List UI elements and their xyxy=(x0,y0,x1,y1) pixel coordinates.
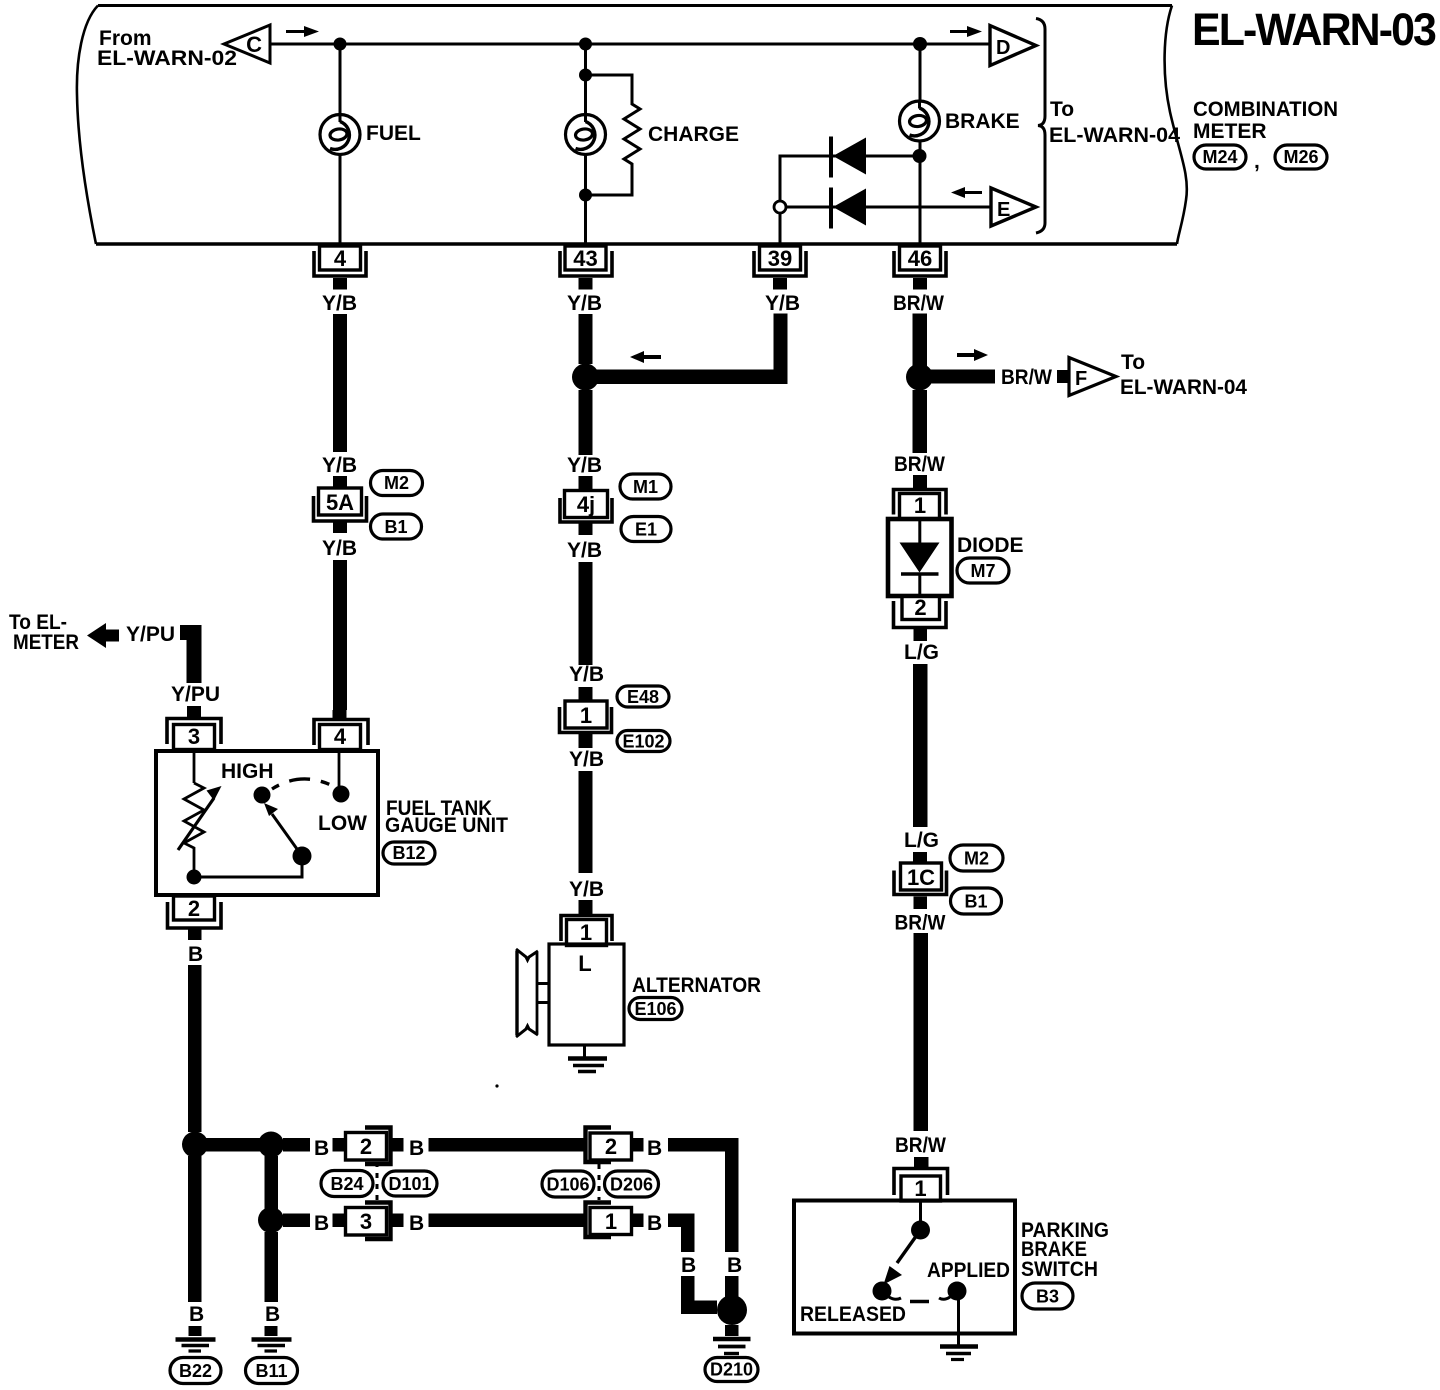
wire switch common lead xyxy=(919,1201,922,1224)
svg-text:Y/B: Y/B xyxy=(567,454,602,477)
ground B11 xyxy=(252,1340,292,1352)
svg-text:B: B xyxy=(727,1254,742,1277)
wire junction to F xyxy=(930,370,995,384)
svg-text:EL-WARN-04: EL-WARN-04 xyxy=(1120,376,1247,399)
wire charge thick below junction xyxy=(579,390,593,455)
wire stub row1 after right 2 xyxy=(632,1138,644,1152)
wire between junctions xyxy=(206,1138,260,1152)
svg-text:M1: M1 xyxy=(633,477,658,497)
svg-text:L: L xyxy=(578,951,591,976)
connector oval M2 xyxy=(371,471,423,496)
svg-text:CHARGE: CHARGE xyxy=(648,123,739,146)
svg-text:M7: M7 xyxy=(970,561,995,581)
wire stub row1 after 2 xyxy=(391,1138,404,1152)
terminal 2 gauge xyxy=(168,896,222,940)
svg-text:4: 4 xyxy=(334,246,347,271)
scan speck xyxy=(495,1084,498,1087)
svg-text:B1: B1 xyxy=(964,892,987,912)
svg-text:1C: 1C xyxy=(907,865,935,890)
svg-text:F: F xyxy=(1075,368,1087,390)
svg-text:E: E xyxy=(997,199,1010,221)
wire Y/PU elbow xyxy=(180,625,202,683)
contact HIGH xyxy=(254,787,271,804)
svg-text:43: 43 xyxy=(573,246,597,271)
wire node to terminal 39 xyxy=(779,212,782,244)
svg-text:To: To xyxy=(1050,98,1074,121)
combination meter box outline xyxy=(77,6,1187,245)
svg-text:B: B xyxy=(188,943,203,966)
dashed mating line row1 xyxy=(376,1162,379,1203)
box alternator xyxy=(549,944,624,1045)
connector arrow C xyxy=(224,25,270,63)
svg-text:M24: M24 xyxy=(1202,147,1237,167)
contact RELEASED xyxy=(873,1282,902,1301)
svg-text:Y/PU: Y/PU xyxy=(126,623,175,646)
svg-text:3: 3 xyxy=(360,1209,372,1234)
connector oval D106 xyxy=(542,1171,594,1197)
connector pair row1 right 2 xyxy=(586,1128,632,1163)
terminal 3 gauge xyxy=(167,706,221,750)
terminal 4 xyxy=(314,246,366,290)
wire main bus xyxy=(270,43,990,46)
svg-text:APPLIED: APPLIED xyxy=(927,1259,1010,1282)
svg-text:B22: B22 xyxy=(179,1361,212,1381)
diode upper xyxy=(831,137,866,178)
connector oval M26 xyxy=(1275,145,1327,169)
svg-text:B3: B3 xyxy=(1036,1287,1059,1307)
connector oval M7 xyxy=(957,558,1009,583)
svg-text:BR/W: BR/W xyxy=(894,453,945,476)
terminal 39 xyxy=(754,246,806,290)
svg-text:46: 46 xyxy=(908,246,932,271)
svg-text:M2: M2 xyxy=(384,473,409,493)
contact APPLIED xyxy=(939,1282,967,1301)
text FUEL TANK GAUGE UNIT xyxy=(385,797,508,837)
svg-text:COMBINATION: COMBINATION xyxy=(1193,98,1338,121)
svg-text:5A: 5A xyxy=(326,490,354,515)
connector oval E1 xyxy=(621,517,671,542)
connector pair row2 right 1 xyxy=(586,1203,632,1238)
node ground D210 xyxy=(717,1295,747,1325)
svg-text:E102: E102 xyxy=(622,732,664,752)
box fuel tank gauge unit xyxy=(156,751,378,895)
svg-text:LOW: LOW xyxy=(318,812,367,835)
wire row1 to corner xyxy=(668,1145,732,1252)
svg-text:METER: METER xyxy=(13,631,79,654)
svg-text:1: 1 xyxy=(914,493,926,518)
connector oval B12 xyxy=(383,842,435,864)
node charge junction xyxy=(572,364,599,391)
terminal 1 parking switch xyxy=(894,1157,948,1201)
connector oval B1 right xyxy=(951,888,1002,914)
svg-text:2: 2 xyxy=(188,896,200,921)
svg-text:D210: D210 xyxy=(710,1360,753,1380)
svg-text:METER: METER xyxy=(1193,120,1267,143)
wire 39 to charge horizontal xyxy=(592,370,788,385)
svg-text:EL-WARN-04: EL-WARN-04 xyxy=(1049,124,1180,147)
connector oval B1 xyxy=(371,514,422,539)
wire junction to B row1 xyxy=(283,1138,310,1152)
node brake diode junction xyxy=(913,149,927,163)
wire charge thick upper xyxy=(579,314,593,364)
svg-text:E106: E106 xyxy=(634,999,676,1019)
text To EL-WARN-04 top xyxy=(1049,98,1180,147)
svg-text:D106: D106 xyxy=(546,1175,589,1195)
svg-text:B: B xyxy=(314,1137,329,1160)
svg-text:E1: E1 xyxy=(635,520,657,540)
wire row2 corner to node xyxy=(688,1276,717,1307)
svg-text:Y/B: Y/B xyxy=(322,454,357,477)
connector oval B22 xyxy=(170,1358,221,1384)
ground B22 xyxy=(176,1340,216,1352)
text From EL-WARN-02 xyxy=(97,27,237,70)
node junction charge xyxy=(579,38,592,51)
splice E48 terminal 1 xyxy=(560,687,612,748)
wire stub B22 xyxy=(189,1326,202,1336)
resistor CHARGE shunt xyxy=(586,75,641,195)
svg-text:BR/W: BR/W xyxy=(1001,366,1052,389)
lamp BRAKE xyxy=(900,101,940,142)
svg-text:M2: M2 xyxy=(964,849,989,869)
wire upper diode branch xyxy=(780,156,920,202)
wire row2 to corner xyxy=(668,1220,688,1252)
flow arrow right of C xyxy=(286,26,319,37)
wire junction to B row2 xyxy=(283,1214,310,1228)
svg-text:39: 39 xyxy=(768,246,792,271)
svg-text:3: 3 xyxy=(188,724,200,749)
svg-text:D: D xyxy=(996,37,1010,59)
wire stub row1 left xyxy=(333,1138,346,1152)
svg-text:RELEASED: RELEASED xyxy=(800,1303,906,1326)
wire charge thick to alternator xyxy=(579,771,593,873)
ground parking switch xyxy=(940,1347,978,1360)
svg-text:B12: B12 xyxy=(392,843,425,863)
svg-text:E48: E48 xyxy=(627,687,659,707)
connector oval M2 right xyxy=(950,845,1003,871)
svg-text:B: B xyxy=(265,1303,280,1326)
svg-text:BR/W: BR/W xyxy=(895,912,946,935)
svg-text:B: B xyxy=(189,1303,204,1326)
connector oval B3 xyxy=(1022,1283,1073,1309)
svg-text:B: B xyxy=(681,1254,696,1277)
connector arrow E xyxy=(991,188,1036,226)
node resistor top xyxy=(579,69,592,82)
wire charge thick mid xyxy=(579,562,593,665)
connector oval D210 xyxy=(705,1358,758,1382)
connector oval E102 xyxy=(617,731,670,752)
node resistor bottom xyxy=(579,189,592,202)
flow arrow left above charge wire xyxy=(630,351,661,363)
svg-text:Y/B: Y/B xyxy=(765,292,800,315)
node gauge bottom junction xyxy=(187,870,202,885)
svg-text:BRAKE: BRAKE xyxy=(945,110,1020,133)
wire stub row2 after right 1 xyxy=(632,1214,644,1228)
connector pair row2 left 3 xyxy=(346,1203,391,1240)
node ground junction row2 xyxy=(258,1207,284,1233)
connector oval M24 xyxy=(1194,145,1246,169)
connector arrow D xyxy=(990,26,1036,66)
svg-text:2: 2 xyxy=(914,595,926,620)
svg-text:B: B xyxy=(314,1212,329,1235)
wire row1 long xyxy=(429,1138,587,1152)
svg-text:D101: D101 xyxy=(388,1174,431,1194)
wire junction mid down xyxy=(265,1156,279,1209)
svg-text:GAUGE UNIT: GAUGE UNIT xyxy=(385,814,508,837)
svg-text:,: , xyxy=(1254,150,1260,173)
wire B22 thick vertical xyxy=(188,1156,202,1302)
svg-text:HIGH: HIGH xyxy=(221,760,274,783)
connector oval E48 xyxy=(617,686,669,707)
text To EL-WARN-04 right xyxy=(1120,351,1247,399)
wire brake thick to switch xyxy=(914,933,929,1131)
wire B11 thick vertical xyxy=(265,1232,279,1302)
svg-text:C: C xyxy=(246,32,262,57)
terminal 2 diode xyxy=(894,595,947,641)
node ground junction mid xyxy=(258,1132,284,1158)
splice 5A xyxy=(314,476,367,533)
wire 46 thick vertical xyxy=(913,314,928,368)
wire fuel thick upper xyxy=(333,314,347,452)
svg-text:To: To xyxy=(1121,351,1145,374)
svg-text:1: 1 xyxy=(914,1176,926,1201)
svg-text:Y/PU: Y/PU xyxy=(171,683,220,706)
wire fuel thick lower xyxy=(333,560,347,710)
wire stub row2 after 3 xyxy=(391,1214,404,1228)
dashed travel arc gauge xyxy=(272,779,335,789)
svg-text:Y/B: Y/B xyxy=(322,537,357,560)
svg-text:B24: B24 xyxy=(330,1174,363,1194)
svg-text:2: 2 xyxy=(605,1134,617,1159)
svg-text:4j: 4j xyxy=(577,492,595,517)
svg-text:DIODE: DIODE xyxy=(957,534,1024,557)
svg-text:2: 2 xyxy=(360,1134,372,1159)
svg-text:ALTERNATOR: ALTERNATOR xyxy=(632,974,761,997)
wire 39 thick vertical xyxy=(774,314,788,371)
wire brake thick below junction xyxy=(913,390,928,453)
connector oval E106 xyxy=(629,998,682,1020)
svg-text:Y/B: Y/B xyxy=(322,292,357,315)
ground alternator xyxy=(568,1045,607,1072)
wire low contact lead xyxy=(338,750,341,788)
dashed mating line row1 right xyxy=(598,1164,601,1200)
node open circle xyxy=(774,201,786,213)
svg-text:1: 1 xyxy=(580,920,592,945)
connector pair row1 left 2 xyxy=(346,1128,391,1165)
wire gauge wiper return xyxy=(194,860,302,877)
wire stub row2 left xyxy=(333,1214,346,1228)
wire charge lamp vertical xyxy=(584,44,587,244)
wire stub before F xyxy=(1057,370,1069,383)
wire stub to D210 node xyxy=(725,1276,739,1297)
flow arrow before D xyxy=(950,26,982,37)
lamp FUEL xyxy=(320,114,360,155)
node ground junction left xyxy=(182,1132,208,1158)
svg-text:M26: M26 xyxy=(1283,147,1318,167)
svg-text:L/G: L/G xyxy=(904,829,939,852)
connector oval B24 xyxy=(321,1171,373,1197)
svg-text:1: 1 xyxy=(605,1209,617,1234)
svg-text:B: B xyxy=(647,1137,662,1160)
brace to EL-WARN-04 xyxy=(1036,19,1045,234)
node junction fuel xyxy=(334,38,347,51)
svg-text:L/G: L/G xyxy=(904,641,939,664)
svg-text:BR/W: BR/W xyxy=(895,1134,946,1157)
wire brake lamp vertical xyxy=(919,44,922,244)
dash between contacts xyxy=(910,1300,929,1304)
svg-text:B: B xyxy=(647,1212,662,1235)
node wiper pivot xyxy=(293,847,312,866)
svg-text:EL-WARN-03: EL-WARN-03 xyxy=(1192,4,1436,55)
switch wiper arm gauge xyxy=(264,803,302,856)
connector oval M1 xyxy=(620,474,671,499)
svg-text:Y/B: Y/B xyxy=(569,663,604,686)
wire fuel lamp vertical xyxy=(339,44,342,244)
svg-text:B: B xyxy=(409,1212,424,1235)
svg-text:EL-WARN-02: EL-WARN-02 xyxy=(97,47,237,70)
wire lower diode branch xyxy=(786,206,991,209)
lamp CHARGE xyxy=(566,114,606,155)
terminal 46 xyxy=(894,246,946,290)
svg-text:Y/B: Y/B xyxy=(569,748,604,771)
svg-text:Y/B: Y/B xyxy=(569,878,604,901)
svg-text:FUEL: FUEL xyxy=(366,122,421,145)
svg-text:Y/B: Y/B xyxy=(567,292,602,315)
diode M7 component xyxy=(888,519,952,596)
wire applied to ground xyxy=(957,1300,960,1345)
node switch common xyxy=(911,1221,930,1240)
svg-text:B11: B11 xyxy=(255,1361,287,1381)
ground D210 xyxy=(713,1325,751,1354)
terminal 43 xyxy=(560,246,612,290)
wire gauge resistor lead xyxy=(193,750,196,783)
contact LOW xyxy=(333,786,350,803)
wire row2 long xyxy=(429,1214,587,1228)
svg-text:4: 4 xyxy=(334,724,347,749)
terminal 4 gauge xyxy=(314,710,368,750)
svg-text:SWITCH: SWITCH xyxy=(1021,1258,1098,1281)
svg-text:D206: D206 xyxy=(610,1175,653,1195)
connector oval B11 xyxy=(246,1358,298,1384)
flow arrow left above E wire xyxy=(951,187,982,198)
text To EL-METER xyxy=(9,611,79,654)
flow arrow to EL-METER xyxy=(87,623,119,648)
terminal 1 alternator xyxy=(561,900,612,946)
svg-text:B1: B1 xyxy=(384,517,407,537)
svg-text:Y/B: Y/B xyxy=(567,539,602,562)
terminal 1 diode xyxy=(894,475,947,519)
flow arrow right above BR W wire xyxy=(957,349,988,361)
variable resistor gauge xyxy=(178,783,222,877)
svg-text:B: B xyxy=(409,1137,424,1160)
splice 1C xyxy=(894,852,947,909)
node junction brake xyxy=(913,37,927,51)
box parking brake switch xyxy=(794,1201,1015,1334)
connector oval D101 xyxy=(383,1171,437,1196)
switch arm parking xyxy=(884,1230,921,1285)
connector arrow F xyxy=(1069,358,1116,396)
diode lower xyxy=(831,188,866,229)
svg-text:BR/W: BR/W xyxy=(893,292,944,315)
wire gauge B thick vertical xyxy=(188,965,202,1132)
svg-text:1: 1 xyxy=(580,703,592,728)
connector oval D206 xyxy=(605,1171,659,1197)
wire stub B11 xyxy=(265,1326,278,1336)
splice 4j xyxy=(560,476,612,535)
node brake junction xyxy=(906,364,933,391)
text COMBINATION METER xyxy=(1193,98,1338,143)
harness band symbol alternator xyxy=(516,949,549,1037)
wire brake thick diode to 1C xyxy=(913,664,928,827)
text PARKING BRAKE SWITCH xyxy=(1021,1219,1109,1281)
